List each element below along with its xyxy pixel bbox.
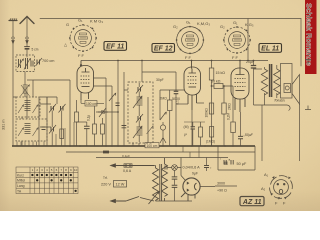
fuse 0,6A: [123, 164, 132, 173]
paper shading left edge: [0, 0, 10, 211]
svg-text:50 μF: 50 μF: [237, 162, 247, 166]
smoothing caps below lamp: [172, 170, 178, 201]
filter resistor 3000/+90: [215, 182, 237, 193]
trimmer near x112: [109, 93, 120, 106]
svg-text:G₁: G₁: [233, 20, 238, 25]
resistor small (x62 column): [60, 129, 64, 139]
svg-text:A₂: A₂: [261, 186, 266, 191]
speaker terminals: [305, 60, 311, 110]
wire x133: [133, 143, 139, 146]
socket diagram EF12 (top view): [173, 20, 210, 61]
heater line: [66, 151, 255, 153]
svg-text:Mittel: Mittel: [17, 179, 25, 183]
mains lead top with arrow: [111, 164, 155, 167]
junction dots on B+ bus: [117, 60, 254, 87]
svg-text:F F: F F: [78, 53, 85, 58]
cathode resistor EF11: [75, 100, 79, 146]
svg-text:„50μF: „50μF: [243, 133, 254, 137]
band filter box BF1 (dashed): [16, 97, 40, 117]
tube V2 EF12 (side view): [184, 61, 201, 111]
antenna A2 plug: [26, 37, 28, 46]
mains lead bottom with arrow and switch: [111, 197, 155, 203]
table dot row TA: [74, 190, 76, 192]
wire lower distribution line: [96, 157, 228, 159]
svg-text:100kΩ: 100kΩ: [205, 108, 209, 118]
coupling cap 30pF to EF12: [142, 72, 180, 146]
antenna coil T1 (dashed box): [16, 55, 35, 72]
resistor 0,2M EL11 grid: [227, 108, 236, 146]
ground bus (bottom, thick): [12, 145, 255, 147]
svg-text:μ²: μ²: [184, 133, 187, 137]
svg-text:3000: 3000: [217, 182, 225, 186]
coil 2: [137, 127, 143, 135]
label box EF11: [104, 42, 127, 51]
trimmer cap near antenna coil: [36, 58, 43, 66]
EF12 pin wires: [176, 103, 188, 105]
coil 1: [137, 97, 143, 105]
svg-text:Lang: Lang: [17, 184, 25, 188]
left area vertical wires: [12, 57, 14, 146]
trimmer cap pair left: [49, 104, 56, 113]
table dots row Kurz: [31, 174, 72, 176]
small caps right of rectifier: [225, 158, 231, 166]
svg-text:AZ 11: AZ 11: [242, 199, 262, 206]
dial lamp: [165, 165, 200, 176]
dropper resistor R-drop1 (zigzag): [149, 166, 160, 205]
red model tag: [305, 0, 317, 74]
svg-text:0,1μ: 0,1μ: [87, 115, 91, 121]
AVC resistor box 2: [101, 118, 105, 146]
svg-text:(M): (M): [184, 125, 189, 129]
svg-text:EL 11: EL 11: [261, 46, 279, 53]
junction dots bottom bus: [69, 145, 234, 147]
wires near EF11 bottom: [94, 78, 107, 146]
svg-text:9μF: 9μF: [192, 172, 198, 176]
wire x118 vertical: [117, 61, 119, 147]
svg-text:Schlaak Romanze: Schlaak Romanze: [305, 3, 314, 66]
screen decoupling resistor 100k: [205, 103, 214, 118]
screen resistor 15k: [209, 61, 225, 81]
trimmer 2: [138, 116, 141, 121]
svg-text:0,1μF: 0,1μF: [122, 154, 130, 158]
wire band filter top link: [40, 97, 57, 104]
wire x142 from bus to IF: [141, 61, 143, 83]
svg-text:5 cm: 5 cm: [32, 48, 39, 52]
label 220V and 12W box: [101, 176, 127, 187]
svg-text:30pF: 30pF: [156, 78, 164, 82]
svg-text:220 V: 220 V: [101, 183, 111, 187]
wire drop from frame to bus: [247, 19, 249, 61]
svg-text:K,G₃: K,G₃: [245, 22, 254, 27]
wire B+ top bus: [81, 60, 268, 62]
IF transformer (dashed box with two tuned circuits): [128, 82, 153, 143]
svg-text:F F: F F: [232, 55, 239, 60]
speaker LS: [281, 64, 300, 105]
grid resistor 1M: [206, 127, 215, 147]
band switch table: [16, 167, 78, 194]
coupling caps mid: [184, 122, 205, 146]
svg-text:10: 10: [74, 168, 78, 172]
label box AZ11: [240, 197, 264, 206]
wire speaker lead left: [261, 105, 263, 161]
svg-text:„: „: [220, 156, 221, 160]
boxed label on bus 100cm: [145, 143, 159, 148]
socket diagram EL11 (top view): [220, 20, 254, 60]
svg-text:12 W: 12 W: [116, 183, 125, 187]
horizontal link wires left: [13, 97, 51, 127]
svg-text:(1MΩ): (1MΩ): [206, 140, 215, 144]
svg-text:G₂: G₂: [220, 24, 225, 29]
transformer core bars: [160, 164, 162, 201]
table dots row Mittel: [36, 179, 72, 181]
wire y90 EF12 left: [160, 90, 184, 120]
wire stubs into ground bus (comb): [17, 122, 74, 146]
tube labels row: [104, 42, 282, 53]
svg-text:700 cm: 700 cm: [42, 59, 54, 63]
heater connector blob 6,3V: [103, 151, 109, 154]
svg-text:EF 11: EF 11: [106, 44, 124, 51]
wire links bus to power section: [183, 146, 199, 158]
svg-text:Trf.: Trf.: [103, 176, 108, 180]
AVC resistor box: [87, 106, 97, 146]
svg-text:15 kΩ: 15 kΩ: [216, 71, 226, 75]
svg-text:2MΩ: 2MΩ: [228, 103, 232, 110]
pickup jack Q: [160, 122, 166, 146]
svg-text:A₁: A₁: [264, 172, 269, 177]
svg-text:F F: F F: [185, 55, 192, 60]
svg-text:G: G: [66, 22, 69, 27]
dropper resistor R-drop2 (zigzag): [162, 158, 168, 201]
electrolytic block 2x50uF: [218, 146, 255, 170]
svg-text:K,M,G₃: K,M,G₃: [197, 21, 210, 26]
bypass cap EF11: [77, 122, 90, 146]
anode resistor 2M: [160, 58, 173, 146]
tube V1 EF11 (side view): [77, 61, 94, 101]
band filter box BF2 (dashed): [16, 119, 47, 141]
trimmer cap pair left lower: [49, 125, 56, 134]
tube V3 EL11 (side view): [231, 61, 249, 113]
socket diagram AZ11 (top view): [261, 172, 292, 206]
label box EF12: [152, 44, 175, 53]
EL11 cathode cap: [238, 112, 254, 146]
svg-text:0,6 A: 0,6 A: [123, 169, 132, 173]
cap 16uF at rectifier: [204, 158, 212, 172]
svg-text:2MΩ: 2MΩ: [160, 97, 168, 101]
svg-text:100 cm: 100 cm: [86, 102, 97, 106]
antenna A1 plug: [12, 37, 14, 57]
svg-text:G₁: G₁: [186, 20, 191, 25]
phone jack curl: [287, 105, 290, 111]
svg-text:K M G₃: K M G₃: [90, 19, 103, 24]
wire bottom link to jack: [254, 104, 288, 106]
svg-text:5000: 5000: [172, 97, 180, 101]
svg-text:G₂: G₂: [173, 24, 178, 29]
svg-text:50 kΩ: 50 kΩ: [211, 80, 221, 84]
svg-text:Kurz: Kurz: [17, 173, 24, 177]
trimmer arrow lower right of IF: [147, 126, 154, 134]
svg-text:Tonabn.: Tonabn.: [274, 99, 286, 103]
frame top line: [40, 18, 301, 20]
cap at x124: [122, 126, 127, 128]
wire x128 left of IF: [124, 72, 128, 146]
svg-text:G₁: G₁: [78, 18, 83, 23]
oscillator coil L2: [21, 72, 30, 98]
boxed label 100cm: [81, 100, 104, 107]
internal wires: [138, 83, 140, 142]
svg-text:0,2M: 0,2M: [227, 113, 231, 120]
rectifier tube AZ11 (circle): [156, 158, 216, 202]
svg-text:0,04/0,6 A: 0,04/0,6 A: [183, 166, 201, 170]
svg-text:100 cm: 100 cm: [147, 144, 158, 148]
frame right border: [300, 19, 302, 67]
resistor column x224: [222, 85, 232, 146]
svg-text:20μF: 20μF: [246, 60, 255, 64]
antenna A2: [20, 17, 34, 37]
svg-text:331 m: 331 m: [2, 119, 6, 130]
wire inside IF box right: [147, 97, 149, 143]
variable cap (tuning gang 1): [96, 108, 118, 117]
svg-text:+90 Ω: +90 Ω: [217, 189, 227, 193]
svg-text:EF 12: EF 12: [154, 46, 173, 53]
volume pot arrow: [160, 112, 166, 120]
wire speaker lead right: [299, 104, 301, 161]
resistor 50k (horizontal): [211, 80, 233, 147]
socket diagram EF11 (top view): [64, 18, 103, 59]
capacitor C-ant 5cm: [25, 47, 39, 57]
trimmer cap col x62: [59, 104, 66, 113]
label box EL11: [259, 44, 282, 53]
trimmer 1: [138, 87, 141, 92]
junction dots x118: [105, 111, 119, 147]
paper shading bottom edge: [0, 190, 320, 211]
coupling cap 20uF to output: [246, 60, 256, 105]
output transformer T2: [254, 64, 281, 105]
antenna A1: [9, 19, 17, 37]
